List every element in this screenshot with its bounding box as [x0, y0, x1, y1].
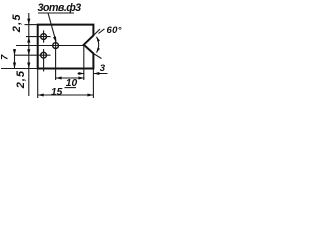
hole C (diameter 3): [53, 43, 59, 49]
dimension 2,5 top: arrows: [27, 19, 30, 25]
svg-text:3: 3: [100, 63, 106, 74]
note underline: [38, 12, 74, 14]
svg-text:60°: 60°: [107, 25, 122, 36]
left edge extension line (down, for 15): [37, 69, 39, 99]
svg-text:2,5: 2,5: [11, 13, 23, 33]
dimension 10 line: [56, 77, 85, 79]
bottom edge extension line (left): [1, 68, 38, 70]
svg-text:15: 15: [51, 87, 63, 98]
leader from note to hole C: [48, 13, 56, 41]
hole B centerlines: [14, 49, 51, 72]
underline of 10 (not to scale mark): [65, 87, 77, 89]
top edge extension line (left): [25, 24, 38, 26]
notch vertex extension line (down, for 3 and 10): [83, 45, 85, 80]
hole B (diameter 3): [41, 52, 47, 58]
hole A centerlines: [26, 30, 51, 42]
60 degree arc: [97, 37, 99, 53]
plate outline with 60-degree V-notch: [38, 25, 94, 69]
dimension 15 line: [38, 94, 94, 96]
svg-text:3отв.ф3: 3отв.ф3: [38, 2, 82, 14]
dimension 2,5 bottom: outer dim line: [14, 49, 16, 69]
chain dimension line for 2,5 and 7: [28, 13, 30, 96]
dimension 7: arrows on chain line: [27, 49, 30, 55]
svg-text:7: 7: [0, 54, 11, 60]
hole C centerlines: [16, 39, 84, 80]
svg-text:2,5: 2,5: [15, 70, 27, 89]
notch leg extension lines: [93, 29, 101, 59]
dimension 3 lines: [78, 73, 108, 75]
right edge extension line (down, for 3 and 15): [92, 69, 94, 99]
leader to 60deg label: [99, 29, 105, 34]
hole A (diameter 3): [41, 34, 47, 40]
